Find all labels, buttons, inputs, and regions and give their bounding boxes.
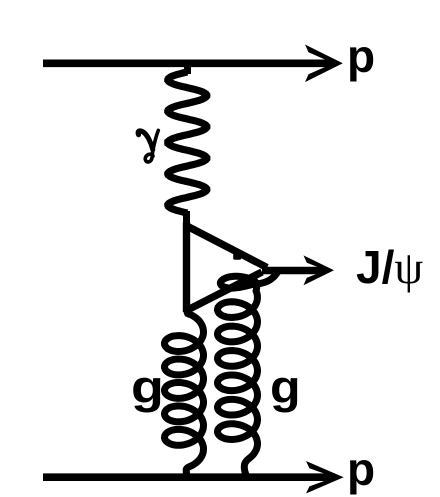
quark loop bottom side (187, 272, 263, 311)
label g left (131, 370, 164, 405)
wire bottom proton line (43, 473, 335, 481)
gluon 2 (right) (218, 272, 279, 475)
quark loop top side (187, 226, 268, 268)
label gamma (drawn glyph) (138, 130, 158, 162)
photon gamma propagator (184, 63, 191, 74)
label J/psi (356, 251, 423, 284)
node bottom arrowhead (306, 461, 344, 494)
label p bottom (347, 453, 375, 486)
label p top (347, 40, 375, 73)
quark loop left side (183, 223, 190, 313)
label g right (270, 370, 301, 405)
wire top proton line (43, 59, 334, 67)
J/psi outgoing line (262, 267, 326, 275)
stub at vertex (233, 252, 241, 260)
node top arrowhead (305, 45, 343, 83)
gluon 1 (left) (165, 308, 204, 475)
J/psi arrowhead (304, 255, 335, 285)
